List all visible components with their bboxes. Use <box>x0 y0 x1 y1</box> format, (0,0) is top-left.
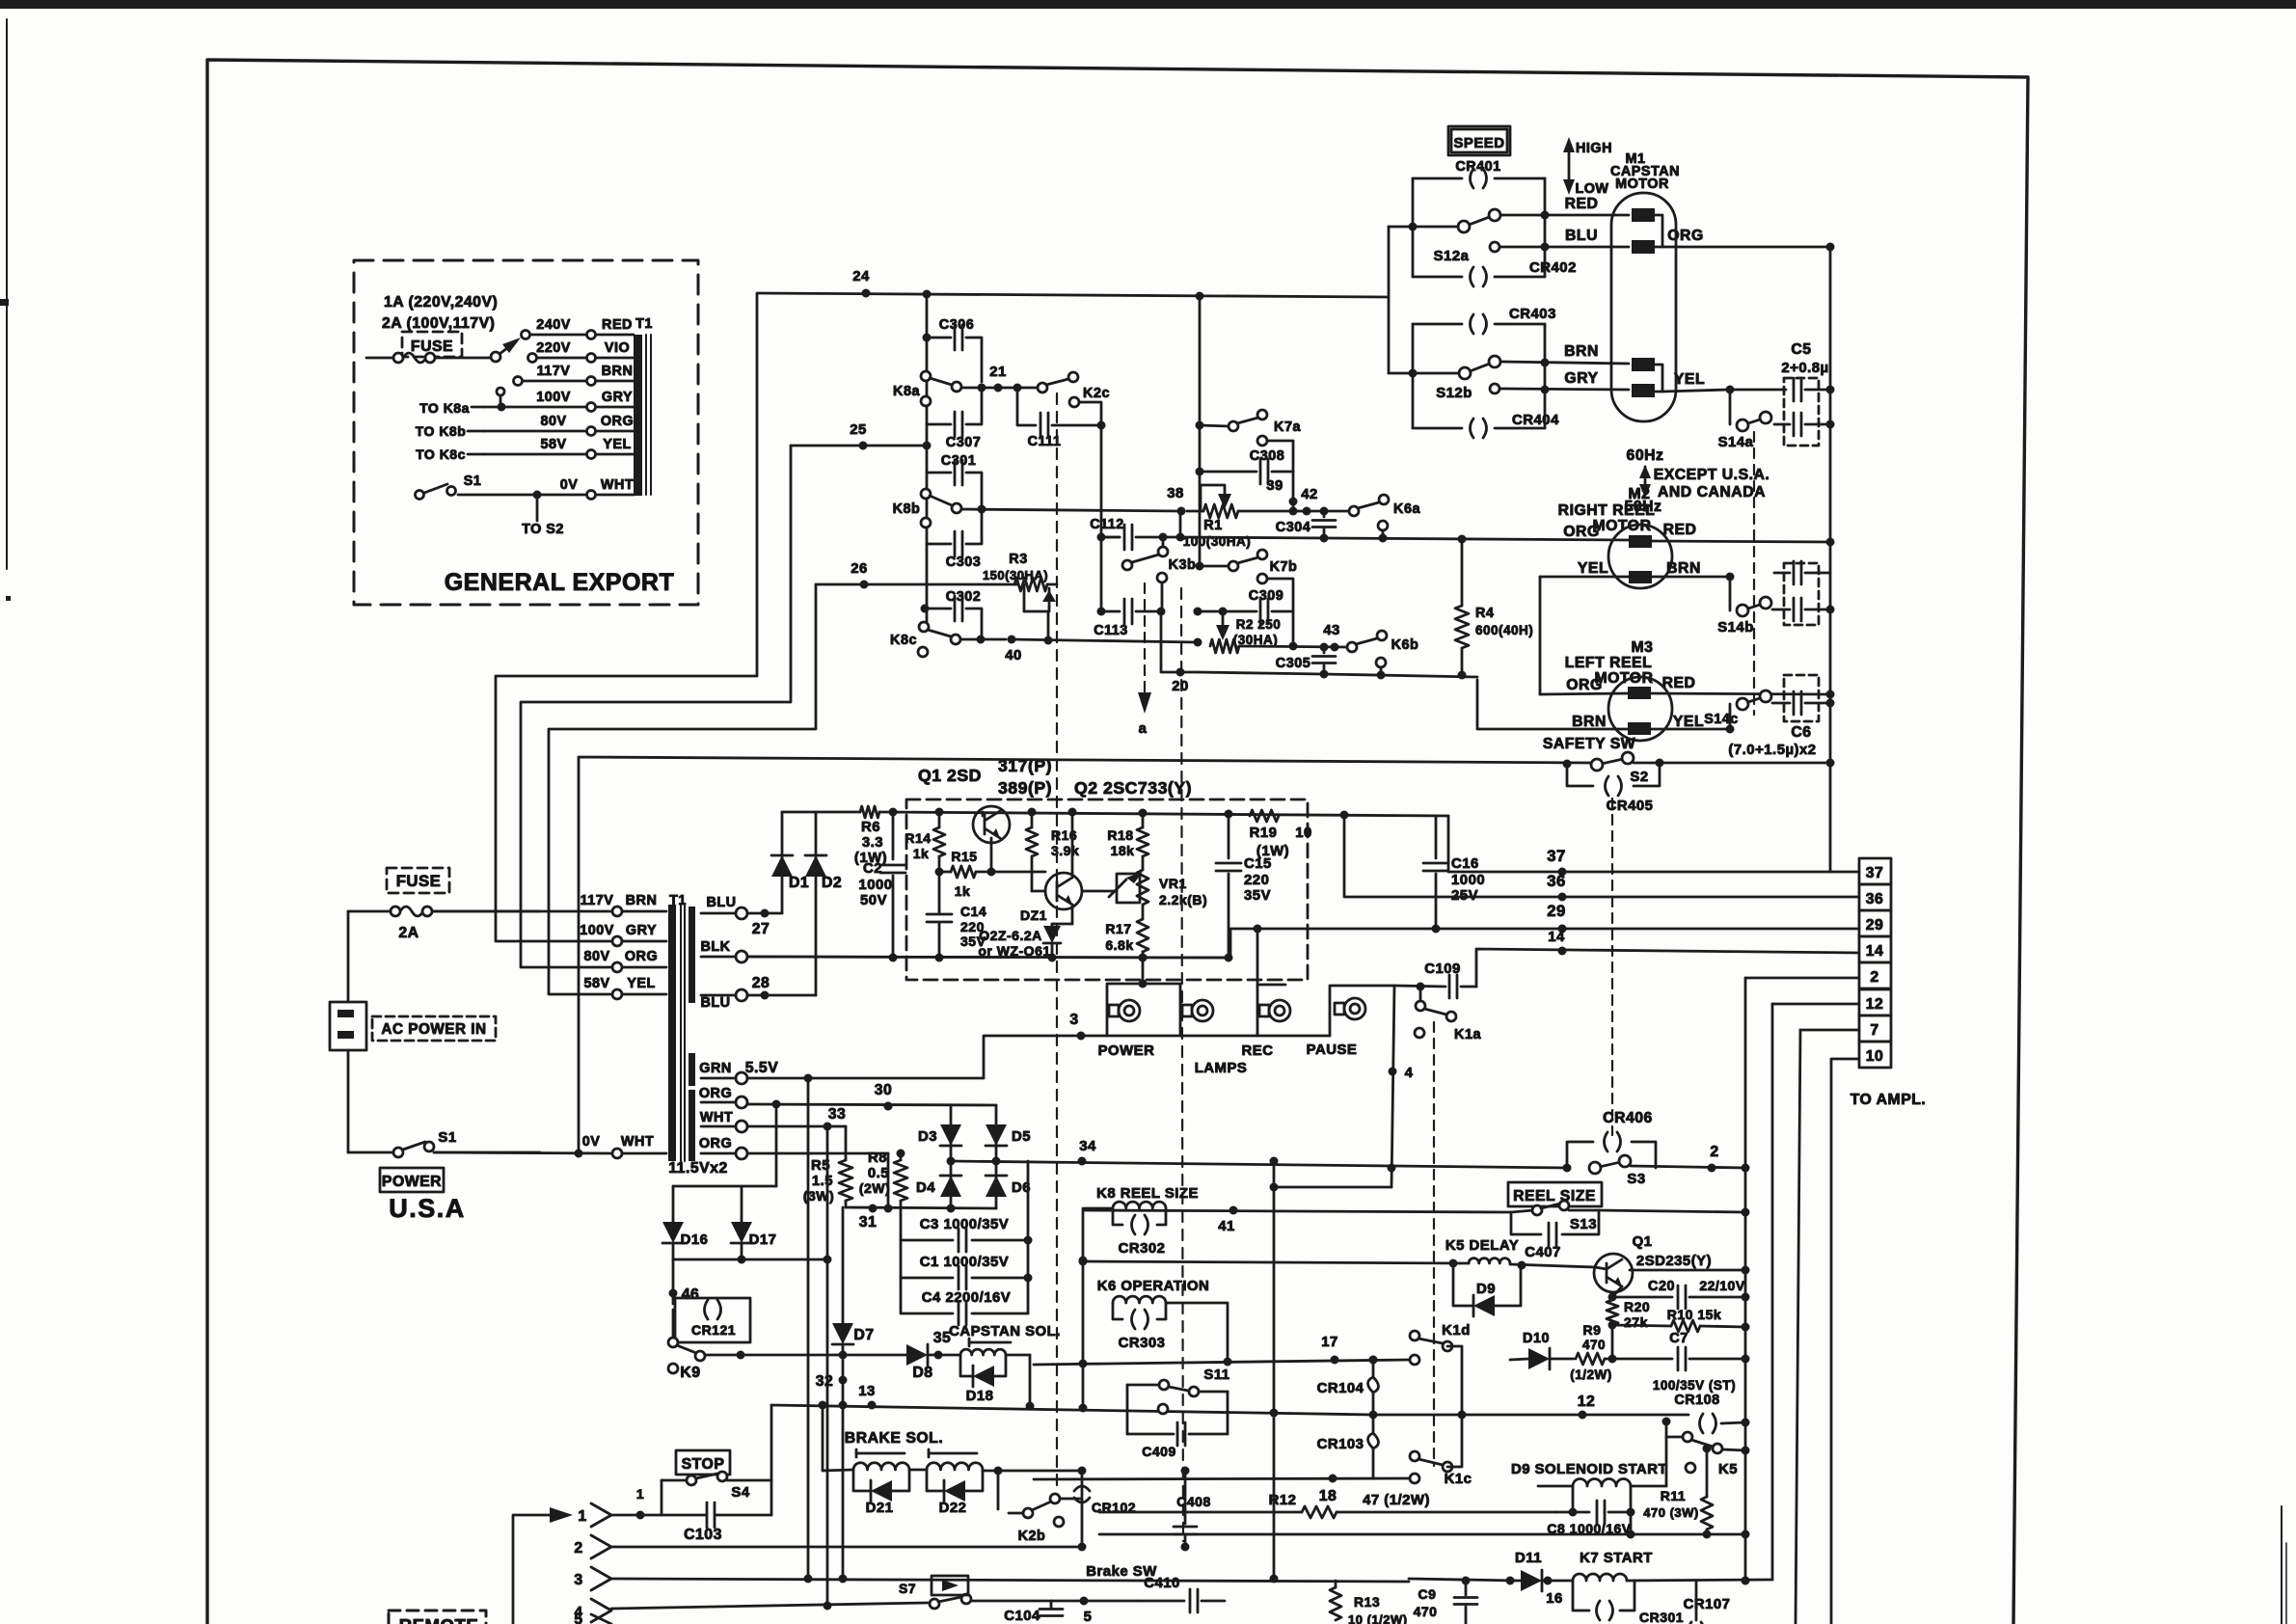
svg-text:470 (3W): 470 (3W) <box>1643 1505 1698 1520</box>
svg-text:58V: 58V <box>583 976 609 991</box>
wire org2 down <box>887 1153 890 1208</box>
svg-text:YEL: YEL <box>1578 560 1608 577</box>
svg-text:TO K8b: TO K8b <box>416 423 467 439</box>
high low arrow <box>1563 137 1612 197</box>
capacitor C304 <box>1276 507 1336 543</box>
svg-text:C407: C407 <box>1525 1245 1561 1260</box>
transformer T1 main core <box>668 893 695 1161</box>
wire 20 row <box>1198 672 1324 674</box>
svg-text:K7b: K7b <box>1270 559 1298 575</box>
svg-text:ORG: ORG <box>601 414 634 429</box>
svg-text:CR108: CR108 <box>1674 1393 1719 1408</box>
AC POWER IN dashed box <box>372 1016 496 1041</box>
capacitor C305 <box>1276 643 1336 679</box>
svg-text:600(40H): 600(40H) <box>1475 623 1533 637</box>
vertical bus pin2 <box>1742 978 1750 1585</box>
svg-text:YEL: YEL <box>1674 371 1705 388</box>
svg-text:BLU: BLU <box>1565 228 1598 244</box>
resistor R9 <box>1570 1322 1616 1382</box>
capacitor C7 <box>1612 1331 1750 1393</box>
wire K7 row <box>1409 1577 1515 1585</box>
svg-text:R8: R8 <box>868 1150 887 1166</box>
svg-text:2+0.8µ: 2+0.8µ <box>1781 361 1828 376</box>
transformer T1 primary tap 0V WHT <box>434 1134 666 1158</box>
svg-text:29: 29 <box>1547 902 1566 920</box>
node 30 bridge top <box>875 1082 893 1111</box>
capacitor C306 <box>923 317 983 382</box>
svg-text:CR104: CR104 <box>1317 1381 1364 1396</box>
wire K6b row <box>1324 671 1477 680</box>
node 21 <box>989 365 1042 392</box>
svg-text:C306: C306 <box>939 317 974 333</box>
svg-text:C14: C14 <box>960 904 986 919</box>
relay CR103 <box>1317 1411 1379 1479</box>
svg-text:ORG: ORG <box>699 1086 732 1101</box>
switch S7 <box>899 1576 1051 1609</box>
svg-text:(7.0+1.5µ)x2: (7.0+1.5µ)x2 <box>1728 743 1816 758</box>
svg-text:LAMPS: LAMPS <box>1195 1061 1248 1076</box>
transformer T1 secondary ORG 2 <box>668 1136 888 1177</box>
svg-text:2SD235(Y): 2SD235(Y) <box>1636 1254 1712 1269</box>
svg-text:C7: C7 <box>1669 1331 1688 1346</box>
svg-text:41: 41 <box>1218 1219 1235 1234</box>
capacitor C302 <box>921 589 983 636</box>
svg-text:D5: D5 <box>1012 1129 1031 1145</box>
svg-text:WHT: WHT <box>621 1134 654 1150</box>
svg-text:7: 7 <box>1870 1022 1878 1039</box>
svg-text:GENERAL EXPORT: GENERAL EXPORT <box>445 569 675 596</box>
svg-text:100V: 100V <box>580 923 614 938</box>
transformer T1 secondary BLU <box>701 895 782 937</box>
svg-text:GRY: GRY <box>626 923 657 938</box>
svg-text:K6b: K6b <box>1391 637 1419 653</box>
svg-text:C104: C104 <box>1004 1609 1040 1624</box>
svg-text:FUSE: FUSE <box>396 872 442 890</box>
svg-text:S14b: S14b <box>1717 620 1754 636</box>
wire row 7 connector <box>1800 1029 1859 1032</box>
wire regulator top rail <box>782 808 1448 820</box>
resistor R20 <box>1607 1293 1650 1360</box>
relay CR107 <box>1684 1581 1731 1624</box>
svg-text:R15: R15 <box>951 849 977 864</box>
svg-text:14: 14 <box>1548 930 1565 945</box>
wire M3 yel <box>1651 725 1735 734</box>
wire 24 to S12 <box>1388 227 1391 373</box>
svg-text:C305: C305 <box>1276 656 1310 671</box>
lamp REC <box>1242 925 1290 1060</box>
switch S12b <box>1389 356 1500 401</box>
wire 40 row right <box>1239 623 1352 652</box>
svg-text:1: 1 <box>578 1508 586 1525</box>
svg-text:2: 2 <box>1710 1144 1718 1160</box>
svg-text:1k: 1k <box>913 846 930 861</box>
svg-text:40: 40 <box>1005 648 1022 663</box>
svg-text:CR303: CR303 <box>1119 1336 1166 1351</box>
wire 41 row <box>1085 1206 1511 1235</box>
svg-text:2.2k(B): 2.2k(B) <box>1159 892 1207 907</box>
svg-text:TO K8c: TO K8c <box>416 447 466 462</box>
svg-text:2: 2 <box>574 1540 582 1556</box>
svg-text:117V: 117V <box>537 364 571 379</box>
svg-text:BRN: BRN <box>1564 343 1599 360</box>
pin 5 input <box>574 1611 611 1624</box>
svg-text:CR402: CR402 <box>1529 260 1577 276</box>
svg-text:ORG: ORG <box>1566 677 1602 693</box>
svg-text:D17: D17 <box>749 1232 777 1248</box>
svg-text:C408: C408 <box>1176 1494 1210 1509</box>
svg-text:3.9k: 3.9k <box>1051 843 1079 858</box>
capacitor C2 <box>858 812 905 958</box>
regulator dashed box <box>906 799 1308 980</box>
capacitor C4 <box>901 1278 1028 1325</box>
capacitor C109 <box>1394 961 1476 998</box>
svg-text:22/10V: 22/10V <box>1699 1278 1745 1293</box>
svg-text:10: 10 <box>1295 826 1312 841</box>
diode D5 <box>986 1124 1031 1146</box>
capacitor C15 <box>1216 814 1272 962</box>
fuse main dashed label <box>387 868 449 893</box>
svg-text:150(30HA): 150(30HA) <box>983 568 1048 582</box>
capacitor C111 <box>1013 384 1106 450</box>
svg-text:1000: 1000 <box>858 878 892 893</box>
svg-text:K2c: K2c <box>1083 386 1110 401</box>
capacitor C303 <box>927 513 982 570</box>
svg-text:21: 21 <box>989 365 1007 380</box>
svg-text:D2: D2 <box>822 875 842 891</box>
svg-text:CR107: CR107 <box>1684 1597 1731 1612</box>
vertical M2 yel to M3 <box>1539 577 1542 694</box>
wire RED <box>1500 196 1629 220</box>
svg-text:38: 38 <box>1167 486 1184 501</box>
zener DZ1 <box>978 907 1061 959</box>
resistor R16 <box>1026 812 1079 891</box>
capacitor C113 <box>1094 599 1165 638</box>
wire bridge right down <box>1024 1161 1033 1313</box>
label Q1 Q2 types <box>918 756 1192 798</box>
svg-text:5.5V: 5.5V <box>745 1060 779 1076</box>
relay CR104 <box>1317 1356 1379 1416</box>
wire 26 <box>816 561 1017 589</box>
svg-text:WHT: WHT <box>700 1110 733 1125</box>
svg-text:K3b: K3b <box>1169 557 1197 573</box>
wire row 12 connector <box>1772 1003 1859 1006</box>
relay CR405 <box>1567 763 1660 814</box>
diode D16 <box>662 1186 708 1259</box>
svg-text:11.5Vx2: 11.5Vx2 <box>668 1160 727 1177</box>
resistor R10 <box>1612 1307 1750 1332</box>
connector to amplifier <box>1850 858 1927 1108</box>
svg-text:R19: R19 <box>1250 826 1278 841</box>
capacitor C104 <box>1004 1597 1138 1624</box>
svg-text:CR406: CR406 <box>1603 1110 1653 1126</box>
svg-text:K1a: K1a <box>1454 1027 1481 1042</box>
transformer T1 tap 58V YEL <box>484 437 634 459</box>
svg-text:S13: S13 <box>1570 1217 1597 1232</box>
wire row 14 <box>1476 930 1859 987</box>
capacitor C309 <box>1194 579 1298 651</box>
wire BRN M1 <box>1500 343 1629 367</box>
relay K7 start <box>1573 1551 1772 1624</box>
svg-text:M2: M2 <box>1629 486 1651 502</box>
svg-text:47 (1/2W): 47 (1/2W) <box>1363 1493 1430 1508</box>
diode D1 <box>771 812 809 913</box>
svg-text:46: 46 <box>682 1286 700 1303</box>
diode D6 <box>986 1176 1031 1197</box>
svg-text:(2W): (2W) <box>859 1180 890 1196</box>
svg-text:TO K8a: TO K8a <box>419 400 470 416</box>
svg-text:36: 36 <box>1866 891 1884 907</box>
svg-text:C410: C410 <box>1144 1576 1180 1591</box>
wire YEL M1 <box>1662 371 1786 394</box>
svg-text:CR302: CR302 <box>1119 1241 1166 1257</box>
svg-text:MOTOR: MOTOR <box>1615 176 1669 192</box>
svg-text:60Hz: 60Hz <box>1627 447 1664 464</box>
svg-text:26: 26 <box>851 561 868 577</box>
label EXCEPT USA <box>1654 467 1770 501</box>
label TO K8c <box>416 447 484 462</box>
REEL SIZE label box <box>1508 1182 1602 1206</box>
wire 40 row <box>1012 636 1202 647</box>
SPEED label box <box>1448 126 1510 155</box>
fuse F1 2A <box>348 907 540 941</box>
wire K8 K6 vertical <box>1079 1208 1088 1408</box>
capacitor C103 <box>640 1405 771 1543</box>
svg-text:AC POWER IN: AC POWER IN <box>381 1021 486 1038</box>
svg-text:80V: 80V <box>540 414 566 429</box>
label TO K8b <box>416 423 484 439</box>
resistor R6 <box>854 806 887 866</box>
svg-text:R11: R11 <box>1661 1488 1686 1503</box>
diode D18 <box>960 1355 1006 1404</box>
svg-text:K1d: K1d <box>1442 1323 1471 1339</box>
svg-text:100/35V (ST): 100/35V (ST) <box>1653 1378 1736 1393</box>
svg-text:CR401: CR401 <box>1455 159 1500 175</box>
svg-text:100V: 100V <box>536 390 571 405</box>
switch S11 <box>1127 1367 1230 1414</box>
wire row 1591 <box>1099 1512 1750 1539</box>
svg-text:C2: C2 <box>863 861 882 877</box>
safety switch S2 <box>1543 736 1833 785</box>
potentiometer VR1 <box>1082 870 1207 907</box>
svg-text:50V: 50V <box>860 893 887 908</box>
vertical bus pin12 <box>1771 1004 1774 1580</box>
svg-text:1: 1 <box>636 1486 644 1502</box>
svg-text:PAUSE: PAUSE <box>1307 1042 1358 1058</box>
diode D2 <box>805 812 842 995</box>
svg-text:M3: M3 <box>1632 639 1654 656</box>
wire ORG M1 <box>1662 228 1835 252</box>
svg-text:34: 34 <box>1079 1139 1096 1154</box>
svg-text:29: 29 <box>1866 917 1884 934</box>
transistor Q2 2SC733 <box>1032 812 1082 924</box>
switch S14c <box>1704 690 1790 729</box>
switch K9 <box>668 1310 906 1381</box>
lamp PAUSE <box>1307 986 1394 1058</box>
svg-text:LEFT REEL: LEFT REEL <box>1565 655 1653 671</box>
transformer T1 primary tap 58V YEL <box>583 976 666 999</box>
node 32 <box>816 1373 848 1390</box>
svg-text:0.5: 0.5 <box>868 1166 889 1181</box>
label C6 <box>1728 724 1816 758</box>
svg-text:C109: C109 <box>1424 961 1461 977</box>
brake solenoid <box>823 1430 983 1471</box>
edge artifacts <box>2282 1506 2286 1624</box>
svg-text:32: 32 <box>816 1373 834 1390</box>
transformer T1 tap 80V ORG <box>484 414 634 436</box>
switch S14b <box>1717 577 1790 636</box>
svg-text:CR404: CR404 <box>1512 413 1559 428</box>
rheostat R1 <box>1183 485 1293 549</box>
wire 100V to K8a <box>496 293 757 941</box>
svg-text:0V: 0V <box>582 1134 601 1150</box>
wire 34 row <box>951 1139 1568 1173</box>
resistor R17 <box>1105 905 1148 958</box>
switch K5 <box>1662 1418 1750 1478</box>
resistor R5 <box>803 1126 852 1207</box>
wire M2 org row <box>1101 535 1629 544</box>
switch K6a <box>1349 495 1420 543</box>
svg-text:D10: D10 <box>1523 1331 1550 1346</box>
wire M3 brn <box>1477 680 1628 729</box>
svg-text:BRN: BRN <box>1666 560 1701 577</box>
svg-text:C113: C113 <box>1094 623 1128 638</box>
svg-text:117V: 117V <box>581 893 614 908</box>
svg-text:D8: D8 <box>912 1365 932 1381</box>
diode D17 <box>731 1186 776 1259</box>
svg-text:C309: C309 <box>1249 588 1283 604</box>
lamp 2 <box>1139 954 1214 1022</box>
svg-text:S14c: S14c <box>1704 712 1739 727</box>
svg-text:R14: R14 <box>905 830 931 846</box>
wire row 36 <box>1344 815 1859 902</box>
wire K2c down <box>1100 425 1103 611</box>
svg-text:YEL: YEL <box>627 976 656 991</box>
switch voltage selector <box>491 338 521 362</box>
wire K7a vertical <box>1199 296 1202 566</box>
svg-text:470: 470 <box>1582 1338 1606 1352</box>
label LAMPS <box>1195 1061 1248 1076</box>
diode D10 <box>1510 1331 1574 1369</box>
svg-text:Q1: Q1 <box>1633 1234 1653 1250</box>
svg-text:K2b: K2b <box>1018 1529 1046 1544</box>
resistor R15 <box>935 849 1046 899</box>
resistor R18 <box>1107 813 1148 870</box>
diode D21 <box>853 1470 909 1516</box>
svg-text:C301: C301 <box>941 453 976 469</box>
diode D4 <box>916 1176 961 1197</box>
wire row 29 <box>1230 902 1859 958</box>
svg-text:BLK: BLK <box>700 939 730 955</box>
switch K8b <box>893 489 1180 528</box>
svg-text:K8 REEL SIZE: K8 REEL SIZE <box>1096 1186 1199 1202</box>
rheostat R3 <box>983 552 1057 640</box>
transformer T1 secondary WHT <box>700 1106 846 1132</box>
svg-text:K6 OPERATION: K6 OPERATION <box>1097 1279 1210 1294</box>
switch K1c <box>1410 1415 1472 1487</box>
wire M3 red <box>1651 693 1830 694</box>
svg-text:CR121: CR121 <box>691 1322 736 1338</box>
svg-text:R20: R20 <box>1624 1299 1650 1314</box>
wire 12 row <box>1373 1394 1688 1420</box>
svg-text:80V: 80V <box>583 949 609 964</box>
svg-text:28: 28 <box>752 975 770 991</box>
svg-text:2A (100V,117V): 2A (100V,117V) <box>382 315 495 332</box>
svg-text:C16: C16 <box>1451 856 1479 872</box>
vertical bus pin10 <box>1831 1059 1859 1624</box>
svg-text:220V: 220V <box>536 340 571 356</box>
vertical bus pin7 <box>1796 1030 1800 1624</box>
switch S14a <box>1718 390 1771 450</box>
CR405 gang dashed <box>1611 798 1613 1135</box>
svg-text:33: 33 <box>828 1106 847 1123</box>
svg-text:S11: S11 <box>1203 1367 1229 1383</box>
svg-text:389(P): 389(P) <box>998 778 1052 798</box>
svg-text:58V: 58V <box>540 437 566 452</box>
svg-text:ORG: ORG <box>625 949 658 964</box>
svg-text:12: 12 <box>1866 996 1884 1013</box>
switch K3b <box>1122 537 1196 611</box>
wire 18 row <box>1034 1475 1410 1505</box>
wire M2 brn <box>1652 573 1735 582</box>
pin 2 input <box>574 1535 1081 1558</box>
svg-text:POWER: POWER <box>1098 1043 1155 1059</box>
svg-text:R9: R9 <box>1583 1322 1602 1338</box>
K2 gang dashed <box>1056 393 1058 1490</box>
label TO S2 <box>522 522 564 537</box>
pin 3 input <box>574 1567 1409 1590</box>
svg-text:D4: D4 <box>916 1180 935 1196</box>
svg-text:Q1 2SD: Q1 2SD <box>918 766 982 785</box>
relay K6 operation <box>1097 1279 1228 1362</box>
svg-text:(1/2W): (1/2W) <box>1570 1367 1612 1382</box>
svg-text:D7: D7 <box>853 1327 874 1343</box>
svg-text:GRN: GRN <box>699 1061 731 1076</box>
transformer T1 secondary BLU 28 <box>700 975 816 1011</box>
svg-text:a: a <box>1139 721 1148 737</box>
resistor R4 <box>1455 539 1533 676</box>
rheostat R2 <box>1210 611 1281 653</box>
svg-text:S12b: S12b <box>1436 386 1472 401</box>
svg-text:K8c: K8c <box>890 633 917 648</box>
svg-text:D9 SOLENOID START: D9 SOLENOID START <box>1511 1462 1667 1477</box>
svg-text:C1 1000/35V: C1 1000/35V <box>920 1255 1009 1270</box>
svg-text:37: 37 <box>1866 865 1884 881</box>
node 38 <box>1167 486 1185 516</box>
svg-text:R13: R13 <box>1354 1594 1380 1610</box>
svg-text:RED: RED <box>602 317 633 333</box>
pin 1 input <box>513 1486 645 1624</box>
svg-text:S3: S3 <box>1627 1172 1645 1187</box>
wire M2 red <box>1652 541 1830 542</box>
svg-text:C308: C308 <box>1250 448 1284 464</box>
svg-text:REMOTE: REMOTE <box>399 1615 479 1624</box>
svg-text:RIGHT REEL: RIGHT REEL <box>1558 502 1656 519</box>
svg-text:C112: C112 <box>1090 517 1124 532</box>
STOP label box <box>676 1450 730 1475</box>
resistor R19 <box>1250 810 1312 859</box>
svg-text:D1: D1 <box>789 875 809 891</box>
svg-text:ORG: ORG <box>1563 524 1599 540</box>
transformer T1 tap 240V RED <box>522 317 635 339</box>
svg-text:K8a: K8a <box>893 384 920 399</box>
svg-text:2A: 2A <box>398 925 419 941</box>
svg-text:R6: R6 <box>861 820 880 835</box>
svg-text:C303: C303 <box>946 555 981 570</box>
switch K8c <box>890 622 1022 663</box>
transformer T1 secondary GRN 5.5V <box>699 1060 984 1084</box>
svg-text:HIGH: HIGH <box>1576 141 1612 156</box>
resistor R13 <box>1330 1581 1408 1624</box>
